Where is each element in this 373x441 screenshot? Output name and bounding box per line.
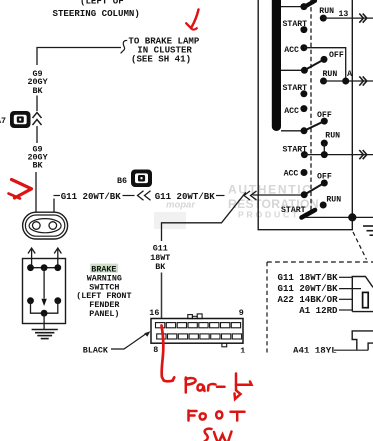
svg-text:G11 20WT/BK: G11 20WT/BK [278, 283, 339, 294]
connector icon A7 [0, 111, 31, 128]
dashed wafer divider [310, 0, 312, 211]
svg-text:A: A [347, 70, 352, 79]
switch lower contacts [27, 297, 61, 316]
label G11 20WT/BK (second) [155, 191, 225, 202]
svg-text:BK: BK [155, 262, 166, 272]
red arrow (left middle) [9, 180, 32, 199]
oval connector (brake warning switch connector) [23, 212, 68, 239]
white clip for bottom scan cutoff [60, 353, 373, 364]
watermark AUTHENTIC RESTORATION PRODUCT [228, 183, 319, 220]
connector housing 2 (partial) [352, 331, 373, 350]
connector pins row 1 [156, 323, 241, 328]
pole 2: ACC branch line [304, 48, 346, 81]
svg-text:RUN: RUN [325, 132, 340, 141]
pole 4 START wiper (thick, engaged) [302, 210, 316, 218]
svg-text:RUN: RUN [319, 7, 334, 16]
svg-text:(LEFT OF: (LEFT OF [80, 0, 124, 7]
svg-text:BK: BK [33, 160, 44, 170]
watermark mopar logo [154, 200, 196, 230]
pole 3 output arrows [359, 150, 367, 159]
connector housing 1 (partial, right edge) [352, 277, 373, 312]
pole 1 wiper [305, 1, 316, 7]
svg-text:ACC: ACC [284, 169, 299, 178]
label (LEFT OF STEERING COLUMN) [53, 0, 140, 19]
brake warning switch box [23, 259, 66, 324]
pole 2 output arrows [359, 76, 367, 85]
ignition switch box [258, 0, 352, 230]
svg-text:STEERING COLUMN): STEERING COLUMN) [53, 8, 140, 19]
connector pin number labels [149, 308, 245, 356]
label TO BRAKE LAMP IN CLUSTER (SEE SH 41) [128, 35, 199, 64]
svg-text:G11: G11 [153, 244, 168, 254]
svg-text:BK: BK [33, 86, 44, 96]
svg-text:OFF: OFF [329, 51, 344, 60]
red annotation: line from pin 16 down [162, 326, 175, 382]
svg-text:ACC: ACC [284, 107, 299, 116]
wire G9 continues [36, 126, 38, 143]
in-line connector chevrons on G9 wire [33, 113, 42, 126]
wire to right pin of oval connector [53, 199, 55, 223]
svg-text:16: 16 [149, 308, 159, 318]
wire G9 to oval connector [35, 172, 37, 222]
foot switch connector (16 pin) [151, 314, 243, 347]
svg-text:G11 20WT/BK: G11 20WT/BK [155, 191, 216, 202]
connector pins row 2 [157, 334, 242, 339]
pole 3 contacts [281, 111, 373, 178]
in-line connector chevrons B6 (on label line) [138, 191, 151, 200]
label A41 (clipped) [293, 345, 368, 356]
label BLACK with pointer arrow [83, 331, 151, 355]
pole 1: feed line [281, 6, 304, 8]
svg-text:G11 18WT/BK: G11 18WT/BK [278, 272, 339, 283]
svg-text:B6: B6 [117, 176, 127, 186]
wire G9 [36, 96, 38, 112]
wire branch diagonal down to foot switch connector [162, 192, 246, 241]
switch arrows exiting top [28, 248, 61, 268]
svg-text:A7: A7 [0, 116, 6, 126]
svg-text:ACC: ACC [284, 46, 299, 55]
red annotation: handwriting "Park" [186, 374, 252, 400]
pole 4 contacts [281, 172, 341, 214]
label G11 20WT/BK (first) with tick to pin [54, 191, 135, 202]
connector icon B6 [117, 170, 152, 188]
svg-text:A22 14BK/OR: A22 14BK/OR [278, 294, 339, 305]
svg-text:A1 12RD: A1 12RD [299, 305, 338, 316]
connector detail dashed box [267, 262, 373, 353]
off-page squiggle to brake lamp [121, 40, 128, 53]
svg-text:START: START [281, 206, 306, 215]
svg-text:PANEL): PANEL) [89, 309, 119, 319]
ground lead and ground symbol [32, 313, 58, 338]
svg-text:9: 9 [239, 308, 244, 318]
wire from chevron into ignition switch START terminal [253, 194, 305, 196]
label G9 20GY BK (upper) [28, 69, 49, 96]
ground symbol (right edge) [363, 226, 373, 235]
svg-text:RUN: RUN [326, 195, 341, 204]
pole 2 contacts [281, 51, 373, 116]
red annotation: arrow at TO BRAKE LAMP [186, 10, 198, 30]
wire G11 18WT to pin 16 [161, 273, 163, 319]
pole 4 output line to ground [305, 213, 373, 221]
switch top contact row [27, 264, 61, 271]
svg-text:G11 20WT/BK: G11 20WT/BK [61, 191, 122, 202]
label G11 18WT BK [150, 244, 170, 273]
dashed leader from switch to connector detail box [353, 232, 367, 260]
svg-text:(SEE SH 41): (SEE SH 41) [131, 53, 191, 64]
label BRAKE WARNING SWITCH (LEFT FRONT FENDER PANEL) [76, 264, 131, 319]
wire list labels [278, 272, 362, 316]
pole 1 contacts [283, 7, 373, 55]
pole 1 output arrows [359, 14, 367, 23]
wire G9 to brake lamp (top corner) [37, 48, 121, 66]
label G9 20GY BK (lower) [28, 144, 49, 170]
switch wiper arrow (down) [41, 268, 46, 306]
ignition switch common bus bar [272, 0, 281, 131]
red annotation: handwriting "SW" (clipped at bottom) [204, 429, 232, 441]
red annotation: handwriting "FOOT" [189, 411, 245, 421]
in-line connector chevrons (at ignition switch) [244, 191, 257, 200]
